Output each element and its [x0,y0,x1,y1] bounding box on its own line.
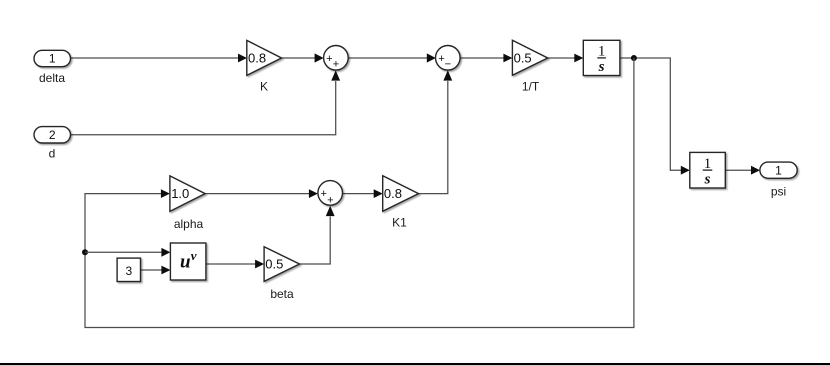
gain K [247,40,282,75]
svg-text:v: v [191,248,197,263]
wire: gain alpha to sum S3 [205,193,309,195]
arrowhead into integrator U2 [681,166,690,175]
svg-text:psi: psi [771,185,786,199]
wire: gain 1/T to integrator U1 [548,57,575,59]
svg-text:0.8: 0.8 [248,51,266,66]
svg-text:0.5: 0.5 [514,51,532,66]
arrowhead into sum S2 left [427,53,436,62]
inport 2 d [34,127,71,143]
wire: sum S1 to sum S2 [348,57,428,59]
inport 1 delta [34,50,71,66]
svg-text:0.5: 0.5 [265,257,283,272]
svg-text:d: d [49,147,56,161]
svg-text:1/T: 1/T [522,80,540,94]
wire: gain K1 up to sum S2 bottom [419,81,448,194]
junction node after integrator U1 [631,55,637,61]
svg-text:1: 1 [704,156,712,172]
wire: gain beta up to sum S3 bottom [300,217,331,265]
label K [260,80,268,94]
wire: integrator U1 output to corner [620,58,681,170]
wire: sum S2 to gain 1/T [460,57,504,59]
arrowhead into sum S3 bottom [326,206,335,216]
label K1 [392,216,407,230]
wire: junction to math block u^v first input [85,251,162,253]
wire: constant 3 to u^v second input [141,269,162,271]
arrowhead into sum S3 left [309,189,318,198]
svg-text:1: 1 [598,44,606,60]
label beta [270,287,294,301]
arrowhead into outport psi [751,166,760,175]
wire: sum S3 to gain K1 [343,193,374,195]
outport 1 psi [760,162,797,178]
svg-text:+: + [326,53,332,65]
arrowhead into sum S2 bottom [443,70,452,80]
gain alpha [170,176,205,212]
arrowhead into gain beta [255,260,264,269]
gain K1 [383,176,419,211]
arrowhead into u^v input 2 [161,266,170,275]
sum S2 [436,46,461,71]
label d [49,147,56,161]
wire: inport d to sum S1 bottom [71,81,336,135]
wire: u^v output to gain beta [206,263,256,265]
svg-text:1: 1 [775,163,782,177]
svg-text:+: + [333,58,339,70]
label delta [39,71,65,85]
svg-text:alpha: alpha [174,217,204,231]
svg-text:2: 2 [49,128,56,142]
svg-text:+: + [327,195,333,207]
junction node on left feedback branch [82,249,88,255]
integrator U1 [583,40,620,75]
arrowhead into gain K [238,54,247,63]
svg-text:s: s [704,171,711,187]
svg-text:0.8: 0.8 [384,186,402,201]
svg-text:s: s [598,59,605,75]
svg-text:1: 1 [49,52,56,66]
svg-text:−: − [445,58,451,70]
arrowhead into gain K1 [374,189,383,198]
svg-text:u: u [180,251,191,272]
wire: gain K to sum S1 [282,57,317,59]
svg-text:+: + [320,188,326,200]
wire: integrator U2 to outport psi [725,169,752,171]
gain beta [264,247,299,282]
label alpha [174,217,204,231]
arrowhead into gain 1/T [503,54,512,63]
arrowhead into u^v input 1 [161,248,170,257]
svg-text:delta: delta [39,71,65,85]
wire: feedback from node down, left and up to alpha input [85,58,634,328]
svg-text:K1: K1 [392,216,407,230]
constant 3 [117,258,140,281]
arrowhead into gain alpha [161,189,170,198]
wire: inport delta to gain K [71,57,241,59]
svg-text:beta: beta [270,287,294,301]
label psi [771,185,786,199]
svg-text:1.0: 1.0 [171,186,189,201]
sum S1 [324,46,349,71]
svg-text:K: K [260,80,268,94]
arrowhead into integrator U1 [574,54,583,63]
svg-text:3: 3 [125,264,132,278]
arrowhead into sum S1 left [315,53,324,62]
bottom separator line [0,363,830,365]
math block u^v [170,243,206,280]
arrowhead into sum S1 bottom [331,70,340,80]
sum S3 [318,181,343,207]
label 1/T [522,80,540,94]
integrator U2 [690,152,726,188]
gain 1/T [512,40,547,75]
